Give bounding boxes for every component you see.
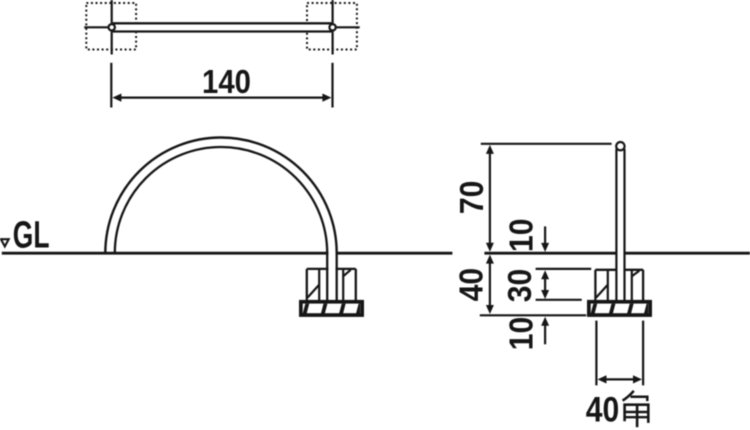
svg-text:70: 70 — [453, 181, 491, 215]
svg-text:40: 40 — [586, 389, 619, 429]
svg-text:30: 30 — [501, 269, 539, 303]
svg-text:140: 140 — [202, 63, 251, 100]
svg-text:10: 10 — [502, 317, 540, 351]
svg-text:40: 40 — [452, 268, 490, 302]
svg-text:10: 10 — [502, 218, 540, 252]
svg-text:GL: GL — [13, 213, 50, 256]
